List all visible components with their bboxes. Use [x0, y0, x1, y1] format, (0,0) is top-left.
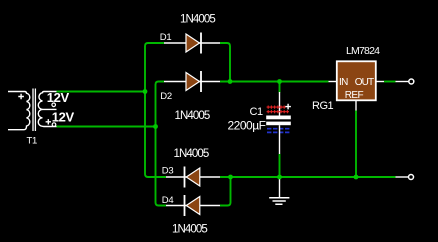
wire: regulator OUT to terminal [384, 81, 396, 83]
svg-text:D3: D3 [162, 165, 174, 176]
regulator REF pin stub [355, 101, 357, 111]
wire: D3 output / ground bus [220, 176, 396, 178]
svg-text:C1: C1 [250, 106, 263, 118]
wire: capacitor bottom lead to bus [279, 154, 281, 177]
wire: capacitor top lead [279, 82, 281, 93]
capacitor C1 blue hatch row 2 [267, 131, 289, 133]
capacitor C1 top plate [266, 116, 291, 120]
svg-text:1N4005: 1N4005 [174, 148, 209, 160]
svg-text:D4: D4 [162, 195, 174, 206]
svg-text:2200µF: 2200µF [228, 118, 266, 132]
svg-text:D1: D1 [160, 32, 172, 43]
diode D4 lead [166, 205, 220, 207]
diode D3 cathode bar [184, 167, 186, 188]
regulator IN pin stub [329, 81, 337, 83]
svg-text:RG1: RG1 [312, 100, 334, 112]
capacitor C1 red hatch row 2 [267, 110, 289, 113]
capacitor C1 top pin [279, 92, 281, 116]
transformer polarity circle winding 2 [52, 123, 56, 127]
svg-text:IN: IN [339, 77, 348, 88]
diode D4 cathode bar [184, 195, 186, 216]
junction node D3/D4 at bus [228, 175, 233, 180]
svg-text:REF: REF [345, 90, 364, 101]
capacitor C1 red hatch row 1 [267, 106, 286, 109]
junction node at rail A / transformer top [143, 89, 148, 94]
svg-text:12V: 12V [52, 109, 75, 124]
transformer T1 secondary winding 2 [38, 109, 56, 126]
svg-text:D2: D2 [160, 91, 172, 102]
capacitor C1 bottom pin [279, 125, 281, 154]
wire: D2 output / main wire to regulator IN [220, 81, 329, 83]
junction node at rail B / transformer bottom [153, 124, 158, 129]
junction node capacitor top [277, 79, 282, 84]
transformer polarity circle winding 1 [52, 103, 56, 107]
wire: D1 output down to IN node [220, 43, 230, 82]
transformer primary polarity + [18, 94, 24, 100]
terminal top circle [409, 79, 414, 84]
diode D1 cathode bar [200, 33, 202, 54]
transformer T1 secondary winding 1 [38, 92, 56, 110]
capacitor C1 plus mark [285, 104, 291, 110]
wire: rail A vertical (D1 to D3) [145, 43, 166, 177]
diode D4 [186, 197, 200, 215]
junction node D1/D2 at IN wire [228, 79, 233, 84]
capacitor C1 bottom plate [266, 122, 291, 126]
terminal bottom circle [409, 175, 414, 180]
wire: D4 output up to bus [220, 177, 231, 206]
terminal top lead [396, 81, 409, 83]
transformer secondary polarity + [46, 119, 51, 124]
ground [269, 198, 289, 205]
wire: rail B vertical (D2 to D4) [156, 82, 167, 206]
ground lead [279, 178, 281, 197]
svg-text:1N4005: 1N4005 [180, 13, 215, 25]
wire: secondary top lead to rail A [57, 91, 146, 93]
svg-text:LM7824: LM7824 [346, 45, 380, 57]
diode D3 lead [166, 176, 220, 178]
capacitor C1 blue hatch row 1 [267, 128, 289, 130]
svg-text:T1: T1 [27, 136, 38, 147]
transformer T1 primary winding [8, 92, 30, 130]
regulator RG1 box [337, 61, 376, 100]
svg-text:12V: 12V [47, 90, 70, 105]
diode D2 [186, 73, 200, 91]
svg-text:1N4005: 1N4005 [175, 110, 210, 122]
terminal bottom lead [396, 176, 409, 178]
junction node capacitor/ground at bus [277, 175, 282, 180]
regulator OUT pin stub [376, 81, 384, 83]
diode D3 [186, 168, 200, 186]
wire: secondary bottom lead to rail B [57, 126, 156, 128]
transformer T1 core [33, 89, 35, 132]
diode D1 [186, 34, 200, 52]
svg-text:1N4005: 1N4005 [172, 224, 207, 236]
junction node REF at bus [354, 175, 359, 180]
svg-text:OUT: OUT [355, 77, 374, 88]
wire: regulator REF to bus [355, 111, 357, 178]
diode D1 lead [164, 42, 220, 44]
diode D2 cathode bar [200, 71, 202, 92]
diode D2 lead [164, 81, 220, 83]
